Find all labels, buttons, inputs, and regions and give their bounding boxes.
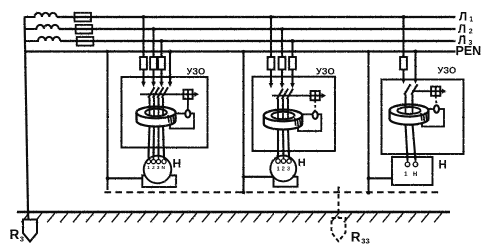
wire drop 2.1 from bus — [270, 17, 272, 84]
RCD enclosure УЗО 2 — [253, 77, 336, 151]
ground surface line — [17, 211, 450, 213]
node tap 2.2 — [280, 27, 284, 31]
wire pole 3.2 into toroid — [411, 94, 413, 107]
terminal 1.1 — [146, 160, 150, 164]
svg-text:УЗО: УЗО — [438, 65, 457, 75]
svg-text:1: 1 — [469, 17, 473, 24]
sensor coil 3 — [434, 105, 439, 112]
svg-text:3: 3 — [20, 235, 24, 244]
wire pole 1.4 to load — [163, 126, 164, 158]
earth electrode R33 — [332, 218, 346, 242]
wire relay K1 to sensor — [187, 99, 189, 111]
node tap 2.3 — [291, 39, 295, 43]
wire pole 3.1 through toroid — [405, 108, 407, 114]
wire pole 1.2 into toroid — [153, 98, 155, 110]
node tap 1.2 — [152, 27, 156, 31]
node PE riser 1 tee — [106, 177, 110, 181]
svg-text:PEN: PEN — [456, 44, 482, 58]
wire pole 2.3 into toroid — [287, 99, 289, 113]
contact pole 2.1 — [269, 83, 274, 88]
wire load 2 terminal lead 1 — [277, 151, 279, 159]
load base 2 — [274, 177, 298, 187]
fuse F3 — [77, 37, 94, 46]
wire PE riser 1 — [106, 52, 108, 191]
transformer winding W2 — [37, 25, 59, 29]
wire pole 1.2 through toroid — [153, 110, 155, 116]
node PE bus riser 3 — [367, 191, 371, 195]
terminal 2.1 — [276, 159, 280, 163]
wire load 1 terminal lead 3 — [158, 148, 160, 160]
node PE bus riser 2 — [242, 190, 246, 194]
sensor coil 1 — [185, 110, 190, 117]
trip unit box U1 — [170, 114, 194, 129]
trip relay K2 — [311, 91, 320, 100]
sensor coil 2 — [313, 112, 318, 119]
wire stem to R3 — [27, 212, 30, 220]
trip relay K1 — [183, 90, 192, 99]
wire dashed drop to R33 — [338, 187, 340, 219]
wire drop 1.3 from bus — [160, 41, 162, 82]
wire pole 2.2 to load — [282, 129, 285, 157]
wire drop 2.3 from bus — [291, 41, 293, 84]
svg-text:Л: Л — [458, 24, 466, 36]
wire PE to load 1 — [108, 177, 143, 179]
wire drop 2.2 from bus — [281, 29, 283, 84]
RCD enclosure УЗО 1 — [122, 77, 208, 148]
wire bus Л2 — [25, 28, 38, 30]
svg-text:Н: Н — [439, 159, 447, 171]
wire load 2 terminal lead 2 — [283, 151, 285, 159]
svg-text:33: 33 — [361, 237, 369, 246]
terminal 2.3 — [287, 159, 291, 163]
terminal 3.1 — [405, 162, 410, 167]
wire bus PEN — [25, 50, 456, 52]
trip unit box U3 — [422, 109, 444, 127]
fuse F13 — [158, 57, 165, 70]
node PE riser 3 tee — [367, 177, 371, 181]
node PE riser 2 on PEN — [242, 50, 245, 53]
svg-text:Н: Н — [173, 156, 182, 170]
current transformer toroid T2 — [264, 110, 302, 130]
wire load 1 terminal lead 4 — [163, 148, 165, 160]
wire relay K2 to sensor — [314, 100, 316, 112]
trip relay K3 — [431, 87, 440, 96]
wire pole 2.2 into toroid — [282, 99, 284, 113]
contact pole 1.3 — [159, 82, 164, 87]
svg-text:1: 1 — [404, 172, 408, 178]
current transformer toroid T3 — [390, 105, 429, 125]
wire drop 1.1 from bus — [142, 17, 144, 82]
trip linkage bar 3 — [412, 90, 443, 92]
node tap 3.1 — [402, 15, 406, 19]
svg-text:R: R — [10, 227, 20, 242]
svg-text:УЗО: УЗО — [187, 66, 206, 76]
fuse F12 — [150, 57, 157, 70]
contact pole 3.2 — [413, 79, 418, 84]
node PE riser 2 tee — [242, 175, 246, 179]
wire load 2 terminal lead 3 — [288, 151, 290, 159]
wire pole 3.2 to load — [413, 124, 416, 160]
terminal 1.4 — [162, 160, 166, 164]
terminal 1.3 — [156, 160, 160, 164]
wire load 3 terminal lead 1 — [407, 154, 409, 162]
load circle H2 — [270, 156, 296, 182]
contact pole 2.3 — [290, 83, 295, 88]
earth electrode R3 — [23, 220, 37, 242]
terminal 2.2 — [281, 159, 285, 163]
contact pole 2.2 — [280, 83, 285, 88]
current transformer toroid T1 — [137, 107, 176, 127]
svg-text:Л: Л — [459, 12, 467, 24]
wire drop 3.2 from bus — [414, 52, 416, 80]
wire pole 1.1 through toroid — [149, 110, 151, 116]
svg-text:1 2 3 N: 1 2 3 N — [147, 165, 165, 171]
wire drop 3.1 from bus — [402, 17, 404, 79]
wire pole 2.3 to load — [288, 129, 289, 157]
wire pole 1.3 through toroid — [158, 110, 160, 116]
wire PE to load 2 — [244, 176, 274, 178]
svg-text:Н: Н — [413, 172, 417, 178]
wire load 3 terminal lead 2 — [415, 154, 417, 162]
terminal 1.2 — [151, 160, 155, 164]
wire bus Л1 — [25, 16, 36, 18]
wire pole 1.4 through toroid — [162, 110, 164, 116]
svg-text:Н: Н — [298, 157, 306, 169]
contact pole 1.2 — [151, 82, 156, 87]
wire pole 2.1 into toroid — [277, 99, 279, 113]
wire PE riser 3 — [367, 52, 369, 194]
wire bus Л3 — [25, 40, 40, 42]
terminal 3.2 — [413, 162, 418, 167]
contact pole 1.1 — [141, 82, 146, 87]
wire PE riser 2 — [242, 52, 244, 193]
wire pole 2.1 to load — [277, 129, 279, 157]
contact pole 3.1 — [401, 79, 406, 84]
wire pole 3.1 to load — [406, 124, 408, 160]
wire drop 1.4 from bus — [169, 52, 171, 83]
wire pole 1.4 into toroid — [162, 98, 164, 110]
wire pole 2.3 through toroid — [287, 113, 289, 119]
fuse F23 — [289, 57, 296, 70]
svg-text:1 2 3: 1 2 3 — [277, 166, 291, 172]
wire pole 1.1 into toroid — [148, 98, 150, 110]
wire transformer neutral earthing conductor — [25, 17, 29, 213]
wire pole 1.1 to load — [149, 126, 150, 158]
node tap 1.4 — [168, 50, 172, 54]
node tap 1.1 — [142, 15, 146, 19]
wire relay K3 to sensor — [435, 96, 438, 106]
wire PE to load 3 — [369, 177, 393, 179]
wire load 1 terminal lead 1 — [148, 148, 150, 160]
fuse F22 — [279, 57, 286, 70]
contact pole 1.4 — [168, 82, 173, 87]
wire pole 1.3 to load — [157, 126, 159, 158]
wire pole 2.1 through toroid — [277, 113, 279, 119]
fuse F1 — [75, 13, 92, 22]
svg-text:2: 2 — [469, 29, 473, 36]
node PE riser 1 on PEN — [106, 50, 109, 53]
load circle H1 — [144, 156, 172, 184]
wire drop 1.2 from bus — [152, 29, 154, 82]
wire pole 3.1 into toroid — [404, 94, 406, 107]
trip linkage bar 1 — [140, 93, 196, 95]
trip linkage bar 2 — [272, 95, 323, 97]
RCD enclosure УЗО 3 — [382, 80, 464, 155]
load box H3 — [392, 157, 433, 185]
transformer winding W1 — [35, 13, 57, 17]
node tap 2.1 — [269, 15, 273, 19]
wire pole 1.3 into toroid — [157, 98, 159, 110]
wire pole 2.2 through toroid — [282, 113, 284, 119]
wire pole 3.2 through toroid — [412, 108, 414, 114]
wire load 1 terminal lead 2 — [153, 148, 155, 160]
fuse F31 — [400, 57, 407, 70]
wire dashed PE bus — [105, 191, 440, 193]
fuse F2 — [76, 25, 93, 34]
load base 1 — [142, 175, 176, 187]
fuse F11 — [140, 57, 147, 70]
svg-text:УЗО: УЗО — [316, 66, 335, 76]
transformer winding W3 — [38, 37, 60, 41]
fuse F21 — [268, 57, 275, 70]
trip unit box U2 — [298, 114, 321, 131]
svg-text:R: R — [351, 229, 361, 244]
node PE riser 3 on PEN — [367, 50, 370, 53]
node tap 1.3 — [160, 39, 164, 43]
node tap 3.2 — [414, 50, 418, 54]
wire pole 1.2 to load — [152, 126, 155, 158]
ground hatching — [21, 213, 29, 222]
